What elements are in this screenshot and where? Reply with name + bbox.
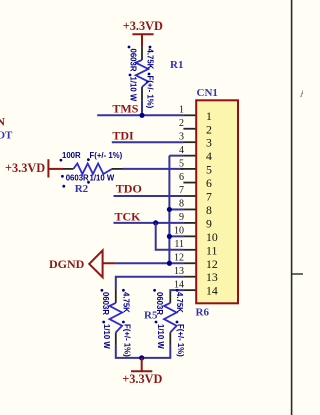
wire TDI to pin 3 — [112, 141, 184, 143]
pin 1 stub — [183, 114, 196, 116]
pin 12 stub — [183, 262, 196, 264]
svg-text:13: 13 — [206, 270, 218, 284]
svg-text:4.75K: 4.75K — [145, 49, 154, 70]
R1 parameter F(+/- 1%) — [148, 73, 151, 76]
pin 6 stub — [183, 182, 196, 184]
R1 parameter 0603R — [128, 46, 131, 49]
resistor R5 — [110, 290, 123, 346]
svg-text:3: 3 — [206, 136, 212, 150]
svg-text:5: 5 — [179, 158, 184, 169]
svg-text:7: 7 — [206, 190, 212, 204]
sheet border vertical line — [291, 0, 293, 415]
R2 parameter F(+/- 1%) — [87, 158, 90, 161]
svg-text:1/10 W: 1/10 W — [90, 173, 115, 182]
svg-text:8: 8 — [179, 199, 184, 210]
svg-text:3: 3 — [179, 131, 184, 142]
power port DGND — [49, 250, 115, 277]
R2 parameter 0603R — [61, 175, 64, 178]
svg-text:OT: OT — [0, 130, 13, 142]
R5 parameter 0603R — [101, 289, 104, 292]
R1 parameter 1/10 W — [129, 74, 132, 77]
svg-text:6: 6 — [206, 176, 212, 190]
wire TMS to pin 1 — [97, 114, 183, 116]
power port +3.3VD (bottom) — [122, 358, 162, 386]
pin 7 stub — [183, 195, 196, 197]
svg-text:5: 5 — [206, 163, 212, 177]
pin 5 stub — [181, 168, 197, 170]
pin 14 stub — [183, 289, 196, 291]
svg-text:1/10 W: 1/10 W — [102, 324, 111, 349]
svg-text:11: 11 — [174, 239, 184, 250]
power port +3.3VD (top) — [123, 19, 163, 46]
svg-text:DGND: DGND — [49, 257, 85, 271]
svg-text:F(+/- 1%): F(+/- 1%) — [90, 151, 123, 160]
svg-text:0603R: 0603R — [101, 292, 110, 315]
svg-text:F(+/- 1%): F(+/- 1%) — [145, 76, 154, 109]
resistor R1 — [136, 46, 149, 100]
svg-text:R1: R1 — [170, 59, 183, 71]
R2 designator — [62, 185, 65, 188]
pin 9 stub — [183, 222, 196, 224]
svg-text:+3.3VD: +3.3VD — [5, 161, 45, 175]
svg-text:0603R: 0603R — [66, 173, 89, 182]
svg-text:TDI: TDI — [112, 128, 134, 142]
svg-text:12: 12 — [206, 257, 218, 271]
power port +3.3VD (left, for R2) — [5, 159, 63, 177]
R5 parameter 4.75K — [122, 289, 125, 292]
junction bottom bus — [139, 355, 144, 360]
svg-text:TDO: TDO — [116, 181, 142, 195]
wire DGND to pin 12 — [115, 262, 183, 264]
R6 parameter F(+/- 1%) — [176, 321, 179, 324]
wire pin 14 to R6 — [170, 290, 183, 292]
svg-text:11: 11 — [206, 243, 217, 257]
pin 8 stub — [183, 208, 196, 210]
wire TCK to pin 9 — [114, 222, 184, 224]
junction V1/pin10 — [167, 234, 172, 239]
wire pin 10 stub to V1 — [169, 235, 183, 237]
pin 4 stub — [183, 155, 196, 157]
svg-text:10: 10 — [174, 226, 184, 237]
svg-text:+3.3VD: +3.3VD — [122, 372, 162, 386]
pin names (inside) — [206, 109, 218, 298]
junction V1/pin8 — [167, 207, 172, 212]
resistor R6 — [164, 292, 177, 346]
svg-text:12: 12 — [174, 252, 184, 263]
svg-text:14: 14 — [174, 279, 184, 290]
svg-text:+3.3VD: +3.3VD — [123, 19, 163, 33]
pin 3 stub — [183, 141, 196, 143]
svg-text:13: 13 — [174, 266, 184, 277]
svg-text:F(+/- 1%): F(+/- 1%) — [176, 324, 185, 357]
svg-text:2: 2 — [179, 118, 184, 129]
wire pin 8 stub to V1 — [169, 208, 183, 210]
wire R1 to TMS — [141, 100, 143, 115]
svg-text:6: 6 — [179, 172, 184, 183]
svg-text:2: 2 — [206, 122, 212, 136]
sheet border zone tick — [292, 273, 303, 275]
svg-text:R6: R6 — [196, 306, 210, 318]
resistor R2 — [63, 164, 123, 175]
R1 parameter 4.75K — [149, 46, 152, 49]
svg-text:TMS: TMS — [112, 102, 138, 116]
svg-text:F(+/- 1%): F(+/- 1%) — [123, 324, 132, 357]
pin 10 stub — [183, 235, 196, 237]
svg-text:1/10 W: 1/10 W — [156, 324, 165, 349]
svg-text:10: 10 — [206, 230, 218, 244]
svg-text:8: 8 — [206, 203, 212, 217]
R2 parameter 1/10 W — [87, 181, 90, 184]
svg-text:TCK: TCK — [115, 209, 142, 223]
wire V2 vertical to pin 11 — [156, 223, 184, 250]
junction DGND/V1 — [167, 261, 172, 266]
svg-text:1/10 W: 1/10 W — [128, 77, 137, 102]
pin 2 stub — [183, 128, 196, 130]
junction TCK/V2 — [153, 220, 158, 225]
R2 parameter 100R — [60, 159, 63, 162]
wire TDO to pin 7 — [114, 195, 184, 197]
R6 parameter 1/10 W — [155, 321, 158, 324]
junction TMS/R1 — [139, 113, 144, 118]
wire pin 13 to R5 — [116, 277, 184, 290]
svg-text:CN1: CN1 — [197, 87, 218, 99]
wire pin 4 to ground bus V1 corner — [169, 155, 183, 157]
svg-text:A: A — [300, 87, 303, 99]
svg-text:4.75K: 4.75K — [122, 292, 131, 313]
svg-text:9: 9 — [179, 212, 184, 223]
svg-text:9: 9 — [206, 216, 212, 230]
connector CN1 body — [196, 100, 238, 303]
svg-text:7: 7 — [179, 185, 184, 196]
svg-text:100R: 100R — [62, 151, 81, 160]
pin 11 stub — [183, 249, 196, 251]
R6 parameter 0603R — [153, 289, 156, 292]
svg-text:1: 1 — [206, 109, 212, 123]
wire ground bus V1 vertical — [168, 156, 170, 264]
svg-text:R2: R2 — [75, 183, 89, 195]
pin 13 stub — [183, 276, 196, 278]
svg-text:0603R: 0603R — [155, 292, 164, 315]
svg-text:4.75K: 4.75K — [175, 292, 184, 313]
connector CN1 pins — [181, 115, 197, 290]
svg-text:4: 4 — [179, 145, 184, 156]
R5 parameter F(+/- 1%) — [122, 321, 125, 324]
svg-text:4: 4 — [206, 149, 212, 163]
svg-text:0603R: 0603R — [128, 49, 137, 72]
svg-text:14: 14 — [206, 284, 218, 298]
wire R5/R6 bottom bus — [116, 346, 171, 358]
wire R2 to pin 5 (crosses V1) — [123, 168, 184, 170]
R6 parameter 4.75K — [176, 289, 179, 292]
R5 parameter 1/10 W — [102, 321, 105, 324]
svg-text:1: 1 — [179, 105, 184, 116]
pin designators (outside) — [174, 105, 184, 291]
svg-text:N: N — [0, 115, 5, 129]
